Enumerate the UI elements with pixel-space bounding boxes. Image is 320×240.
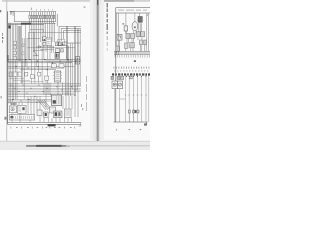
upper bus junction dots <box>25 59 77 63</box>
lower-left bus extension <box>8 100 52 103</box>
lower bus junction dots <box>12 99 37 103</box>
control unit N2 dark box <box>138 17 142 24</box>
relay K3 box with label 4 <box>122 23 127 31</box>
short stubs top left <box>11 11 14 16</box>
meter connector gray boxes <box>111 76 132 79</box>
clock gauge P1 ellipse <box>132 22 138 31</box>
connector strip X1 tall component <box>53 71 62 82</box>
top interconnect wires <box>120 13 149 51</box>
gray loom band <box>18 26 21 61</box>
nested unit enclosure boxes <box>59 26 81 43</box>
relay K1 K2 boxes <box>55 42 66 46</box>
terminal number ticks below border <box>11 127 76 129</box>
title strip text mark <box>147 15 148 16</box>
small boxes near center bottom <box>37 110 48 117</box>
dark connector center <box>55 53 60 59</box>
main bus right page <box>114 51 150 54</box>
B+ label <box>134 60 136 62</box>
page number block on border <box>48 124 56 126</box>
right frame verticals <box>78 29 80 86</box>
mid vertical wires below fuse bus <box>30 23 55 83</box>
wire pair drop right of fuses <box>66 26 67 59</box>
fuse label ticks above border <box>36 7 86 11</box>
left paper edge <box>0 0 7 141</box>
center margin vertical caption text <box>107 3 108 51</box>
small sensor boxes center <box>43 37 46 46</box>
junction dot row <box>126 76 147 77</box>
fuse bus dark junction run <box>21 23 31 25</box>
center stack small boxes <box>55 44 63 52</box>
gray blob above motor <box>11 102 17 105</box>
switch S20 right side of left page <box>75 57 79 65</box>
right page drop wires <box>115 76 149 122</box>
bottom book band <box>0 141 150 150</box>
second bus group <box>8 67 74 70</box>
left page right margin caption <box>85 76 88 111</box>
right vertical wire cluster <box>66 27 78 97</box>
second bus junction dots <box>15 66 47 70</box>
small box with bracket <box>117 34 122 40</box>
stubs from component row to bottom border <box>12 113 72 123</box>
center bottom dark cluster <box>49 107 71 118</box>
main bus junction dots <box>10 85 76 97</box>
link segments left area <box>9 79 44 82</box>
component boxes inside enclosure <box>46 38 65 45</box>
right margin small marks <box>81 104 83 110</box>
second label tick row <box>115 70 149 72</box>
label tick row <box>114 67 150 69</box>
right page terminal numbers <box>116 129 141 131</box>
boxes below upper bus <box>51 64 64 68</box>
wide component box <box>17 105 26 113</box>
top page edge line <box>2 0 150 1</box>
inline lamp circle <box>39 46 41 48</box>
left border dark run <box>7 55 8 62</box>
control unit N1 (ECU) box <box>52 95 62 106</box>
bus crossing verticals <box>12 81 62 107</box>
bottom right mark <box>144 122 147 126</box>
gauges P2 P3 boxes with meter circles <box>112 81 123 89</box>
bottom double border <box>8 122 81 124</box>
fuse bus rails <box>8 23 56 24</box>
frame borders <box>8 11 81 124</box>
long flat component <box>9 115 35 120</box>
plug lead wires <box>117 13 146 55</box>
motor M1 box with circle <box>9 106 17 113</box>
dense dark connector strip <box>112 73 150 75</box>
stacked connector boxes left <box>13 41 24 60</box>
upper distribution bus <box>46 59 72 62</box>
left loom verticals <box>9 23 27 103</box>
left frame border <box>7 11 9 124</box>
small component row mid-left <box>9 72 49 80</box>
fuse plate box <box>14 11 55 21</box>
connector row gray boxes <box>126 32 145 39</box>
drops to bottom row <box>11 90 78 117</box>
left page margin vertical text <box>1 33 7 120</box>
L-routes top left <box>28 30 82 60</box>
dense main bus group <box>8 84 81 97</box>
right page frame with title strip <box>114 8 151 122</box>
top frame border <box>10 10 15 12</box>
left feed connector dark blob <box>8 25 11 28</box>
diagonal harness wires <box>38 100 51 110</box>
fuse bodies S1-S15 <box>29 15 55 18</box>
mid connector plugs <box>116 40 147 51</box>
bottom border end tick <box>79 122 81 126</box>
tick row under bus <box>115 55 150 58</box>
title strip caption dashes <box>118 10 147 11</box>
small bottom component right page <box>128 110 139 122</box>
book gutter shadow <box>90 0 104 141</box>
switch with diagonal <box>33 51 39 56</box>
fuse row S1-S15 leads <box>30 12 58 26</box>
